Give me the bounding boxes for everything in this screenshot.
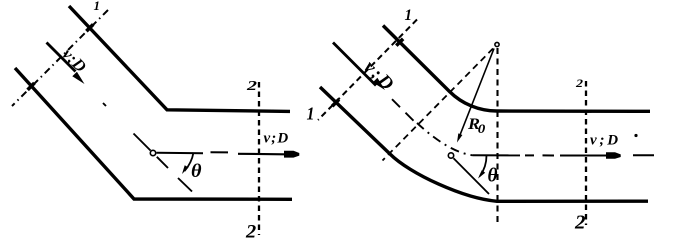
svg-text:v;D: v;D (264, 130, 290, 146)
stray ink dot (right of outlet label) (634, 134, 637, 137)
svg-text:1: 1 (94, 0, 101, 13)
svg-text:v;D: v;D (59, 44, 91, 76)
45-degree dashed radius line (right) (383, 49, 494, 161)
centerline curve (right, dash-dot arc) (417, 123, 473, 155)
centerline extension beyond vertex (left) (157, 157, 168, 168)
section line 2-2 (left, vertical dashed) (258, 82, 260, 235)
svg-text:2: 2 (246, 78, 258, 93)
vertical dashed line from center (right) (496, 48, 498, 226)
svg-text:v;D: v;D (590, 132, 621, 148)
outlet centerline (left): segment, dash, arrow (157, 152, 204, 155)
right pipe top wall (383, 26, 650, 112)
svg-text:2: 2 (575, 78, 584, 90)
left pipe top wall (69, 6, 290, 111)
center of curvature circle (right) (495, 42, 499, 46)
svg-text:v;D: v;D (359, 57, 399, 97)
tick on top wall crossing (left 1-1) (86, 24, 93, 31)
angle arc theta (right) (480, 156, 487, 177)
tick on bottom wall crossing (left 1-1) (28, 83, 35, 90)
tick on bottom wall crossing (right 1-1) (332, 99, 339, 106)
section line 1-1 (left, dash-dot) (12, 10, 108, 106)
svg-text:1: 1 (405, 7, 413, 24)
svg-text:θ: θ (191, 161, 202, 182)
tick on top wall crossing (right 2-2) (581, 110, 592, 113)
vertex circle (right) (448, 153, 453, 158)
svg-text:1: 1 (307, 104, 315, 124)
svg-text:0: 0 (478, 122, 486, 136)
svg-text:2: 2 (245, 223, 256, 243)
inlet flow arrow (right) (333, 43, 376, 86)
tick on top wall crossing (right 1-1) (396, 39, 403, 46)
outlet centerline (right): segments and arrow (473, 154, 520, 156)
radius R0 line with arrow (right) (460, 49, 494, 136)
inlet flow arrow (left) (47, 43, 76, 72)
vertex circle (left) (150, 150, 155, 155)
svg-text:2: 2 (574, 212, 586, 234)
inlet centerline dash-dot remnants (left) (103, 103, 106, 106)
inlet centerline dash-dots (right) (392, 99, 400, 107)
centerline extension beyond vertex (right, solid) (454, 158, 490, 194)
left pipe bottom wall (15, 68, 292, 199)
section line 1-1 (right, dashed) (318, 20, 417, 121)
angle arc theta (left) (185, 153, 194, 172)
section line 2-2 (right, vertical dashed) (585, 81, 587, 225)
right pipe bottom wall (320, 87, 648, 201)
